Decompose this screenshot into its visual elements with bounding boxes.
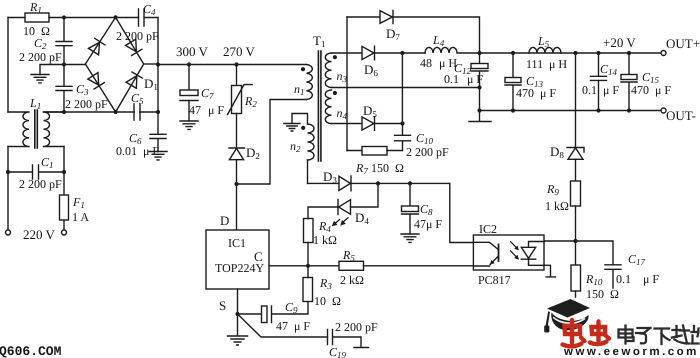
- capacitor C6: [150, 112, 166, 152]
- svg-text:PC817: PC817: [478, 273, 511, 287]
- node: junction top of C2: [62, 15, 66, 19]
- svg-text:n4: n4: [337, 106, 348, 121]
- svg-text:2 200 pF: 2 200 pF: [19, 50, 62, 64]
- svg-text:111: 111: [526, 57, 543, 71]
- svg-text:C7: C7: [201, 86, 214, 101]
- wire: right vertical DC bus x=158: [157, 18, 159, 113]
- svg-text:470 μ F: 470 μ F: [516, 86, 556, 100]
- svg-text:2 200 pF: 2 200 pF: [19, 177, 62, 191]
- inductor L5: [529, 47, 561, 53]
- svg-text:C3: C3: [76, 82, 89, 97]
- svg-text:R5: R5: [342, 248, 355, 263]
- node: OUT- rail at C14: [596, 108, 600, 112]
- capacitor C2: [56, 18, 72, 65]
- transformer winding n1: [307, 65, 313, 100]
- svg-text:S: S: [219, 298, 226, 313]
- bridge rectifier D1: diamond frame: [85, 17, 143, 112]
- capacitor C8 electrolytic: [409, 183, 411, 205]
- svg-text:D3: D3: [323, 169, 337, 185]
- svg-text:1 kΩ: 1 kΩ: [313, 233, 337, 247]
- node: C12 bottom junction: [477, 85, 481, 89]
- svg-text:OUT-: OUT-: [666, 108, 696, 123]
- wire: return vertical to OUT- rail: [479, 88, 481, 111]
- wire: left AC leg down: [7, 147, 9, 231]
- node: bus at C7: [187, 62, 191, 66]
- node: source junction: [235, 312, 239, 316]
- svg-text:C1: C1: [41, 155, 54, 170]
- svg-text:1 kΩ: 1 kΩ: [545, 199, 569, 213]
- node: D5 cathode junction: [400, 121, 404, 125]
- ground below S pin: [228, 314, 248, 345]
- wire: OUT- rail: [480, 110, 662, 112]
- svg-text:C17: C17: [628, 252, 646, 267]
- capacitor C1: [8, 165, 64, 179]
- svg-text:μ H: μ H: [549, 57, 567, 71]
- node: C pin junction R3/R4: [306, 264, 310, 268]
- transformer winding n4: [325, 90, 331, 124]
- svg-text:47: 47: [189, 103, 201, 117]
- arrows near R4: [334, 218, 348, 225]
- transformer winding n3: [325, 53, 331, 87]
- wire: snubber from S node diagonal: [238, 314, 328, 337]
- diode D2: [229, 148, 245, 160]
- svg-text:47μ F: 47μ F: [414, 217, 442, 231]
- svg-text:48: 48: [420, 56, 432, 70]
- svg-text:www.eeworm.com: www.eeworm.com: [563, 346, 699, 358]
- svg-text:2 200 pF: 2 200 pF: [65, 97, 108, 111]
- svg-text:IC2: IC2: [479, 222, 497, 236]
- svg-text:OUT+: OUT+: [666, 36, 700, 51]
- svg-text:0.1 μ F: 0.1 μ F: [616, 272, 659, 286]
- wire: n2 bottom to D3: [307, 160, 309, 183]
- diode D6: [332, 46, 375, 60]
- terminal OUT-: [661, 108, 666, 113]
- svg-text:L4: L4: [432, 33, 445, 48]
- transformer T1 core: [318, 51, 321, 161]
- svg-text:C8: C8: [420, 202, 433, 217]
- svg-text:D5: D5: [363, 103, 377, 119]
- node: n3 phase dot: [333, 55, 337, 59]
- capacitor C19: [328, 330, 369, 348]
- wire: feedback branch from +20V rail: [575, 53, 577, 147]
- svg-text:D1: D1: [144, 76, 158, 92]
- svg-text:C2: C2: [34, 36, 47, 51]
- wire: bottom AC line: [44, 111, 159, 113]
- watermark: chinese site name: [619, 326, 699, 345]
- resistor R10: [575, 241, 577, 265]
- ground below C6: [149, 152, 167, 160]
- svg-text:μ F: μ F: [208, 103, 224, 117]
- svg-text:R9: R9: [546, 182, 559, 197]
- capacitor C7 electrolytic: [188, 65, 190, 90]
- svg-text:47 μ F: 47 μ F: [276, 319, 310, 333]
- svg-text:220 V: 220 V: [23, 227, 56, 242]
- diode: PC817 LED: [521, 242, 544, 266]
- inductor L1: core bars: [35, 110, 38, 148]
- node: bus at bottom AC wire: [156, 110, 160, 114]
- node: C1 left junction: [6, 170, 10, 174]
- svg-text:300 V: 300 V: [176, 44, 209, 59]
- node: bridge top corner junction: [114, 15, 118, 19]
- capacitor C12: [479, 53, 481, 63]
- svg-text:+20 V: +20 V: [603, 35, 636, 50]
- svg-text:2 200 pF: 2 200 pF: [116, 29, 159, 43]
- node: OUT- rail at C13: [511, 108, 515, 112]
- resistor R7: [347, 150, 362, 152]
- node: rectified output junction: [477, 51, 481, 55]
- node: D3 cathode junction: [376, 181, 380, 185]
- wire: top AC line to bridge: [49, 17, 139, 19]
- svg-text:D: D: [220, 213, 229, 228]
- wire: junction to bridge left corner: [64, 64, 85, 66]
- wire: right AC leg down: [63, 147, 65, 196]
- wire: junction to C17: [576, 241, 614, 265]
- node: D6 cathode junction: [400, 51, 404, 55]
- capacitor C10: [395, 124, 411, 151]
- svg-text:150 Ω: 150 Ω: [371, 161, 404, 175]
- capacitor C5: [135, 105, 139, 119]
- svg-text:D6: D6: [364, 62, 378, 78]
- ground at C2/C3 junction: [31, 65, 64, 83]
- node: drain junction: [234, 182, 238, 186]
- node: bridge bottom corner junction: [114, 110, 118, 114]
- svg-text:n2: n2: [290, 139, 301, 154]
- node: bus at R2: [234, 62, 238, 66]
- ground below C8: [401, 234, 419, 242]
- svg-text:n3: n3: [337, 69, 348, 84]
- svg-text:μ F: μ F: [467, 72, 483, 86]
- svg-text:C14: C14: [600, 62, 618, 77]
- inductor L1 common-mode choke: left winding: [8, 112, 29, 147]
- terminal: AC input right: [62, 230, 67, 235]
- wire: left vertical line: [7, 18, 9, 113]
- node: n4 phase dot: [333, 91, 337, 95]
- wire: LED cathode to chassis bar: [545, 265, 556, 277]
- transformer winding n2: [308, 124, 315, 160]
- wire: center tap line: [332, 87, 480, 89]
- svg-text:2 kΩ: 2 kΩ: [340, 273, 364, 287]
- svg-text:270 V: 270 V: [223, 44, 256, 59]
- node: OUT- rail at C15: [627, 108, 631, 112]
- wire: bridge right corner to bus: [144, 63, 158, 65]
- svg-text:n1: n1: [294, 82, 305, 97]
- wire: +DC bus to primary: [158, 64, 307, 66]
- svg-text:R7: R7: [355, 161, 368, 176]
- inductor L1: right winding: [44, 112, 65, 147]
- wire: D pin: [236, 184, 238, 230]
- wire: bias net down to optocoupler: [450, 183, 474, 242]
- svg-text:R1: R1: [29, 0, 42, 15]
- wire: C pin: [269, 265, 308, 267]
- node: junction bottom of C3: [62, 110, 66, 114]
- chassis bar below return junction: [469, 111, 491, 122]
- capacitor C3: [56, 65, 72, 113]
- node: C8 junction: [408, 181, 412, 185]
- bridge diode bottom-right: [126, 72, 142, 88]
- capacitor C9 electrolytic: [238, 313, 262, 315]
- svg-text:μ F: μ F: [603, 83, 619, 97]
- svg-text:470 μ F: 470 μ F: [631, 83, 671, 97]
- terminal: AC input left: [6, 230, 11, 235]
- svg-text:C: C: [254, 249, 263, 264]
- wire: top AC line left segment: [8, 17, 25, 19]
- inductor L4: [425, 47, 480, 53]
- node: C2/C3/ground junction: [62, 62, 66, 66]
- diode D5: [332, 117, 375, 131]
- ground at n2 top: [284, 114, 308, 132]
- node: return rail junction: [477, 108, 481, 112]
- bridge diode top-left: [88, 38, 104, 54]
- svg-text:D2: D2: [246, 145, 260, 161]
- svg-text:10 Ω: 10 Ω: [314, 294, 341, 308]
- wire: junction to optocoupler LED: [545, 240, 576, 242]
- svg-text:D4: D4: [355, 210, 369, 226]
- svg-text:L5: L5: [537, 34, 550, 49]
- svg-text:C5: C5: [131, 91, 144, 106]
- node: rail at C13: [511, 51, 515, 55]
- node: C1 right junction: [62, 170, 66, 174]
- svg-text:C19: C19: [329, 345, 347, 358]
- node: n1 phase dot: [301, 67, 305, 71]
- ground below C7: [180, 121, 198, 129]
- svg-text:R10: R10: [585, 272, 603, 287]
- svg-text:L1: L1: [29, 96, 41, 111]
- node: rail at D8: [573, 51, 577, 55]
- node: bus at y64: [156, 62, 160, 66]
- svg-text:1 A: 1 A: [72, 210, 89, 224]
- diode D4: [338, 200, 351, 215]
- bridge diode bottom-left: [88, 73, 104, 89]
- varistor R2: [236, 65, 238, 86]
- resistor R1: [25, 13, 49, 22]
- wire: rectifier cathode vertical: [401, 53, 403, 124]
- wire: drain to primary bottom: [237, 100, 307, 185]
- svg-text:R4: R4: [318, 219, 331, 234]
- svg-text:R2: R2: [244, 94, 257, 109]
- capacitor C13 electrolytic: [512, 53, 514, 77]
- wire: S pin: [237, 289, 239, 314]
- svg-text:2 200 pF: 2 200 pF: [335, 320, 378, 334]
- wire: +20V rail: [480, 52, 662, 54]
- node: feedback junction: [573, 239, 577, 243]
- resistor R9: [571, 181, 581, 206]
- svg-text:C4: C4: [143, 2, 156, 17]
- op-amp U1 : IC1 TOP224Y block: [206, 230, 269, 289]
- svg-text:C10: C10: [416, 131, 434, 146]
- node: rail at C15: [627, 51, 631, 55]
- arrows: photo coupling: [511, 242, 518, 258]
- svg-text:Q606.COM: Q606.COM: [0, 344, 62, 358]
- optocoupler IC2 PC817 box: [473, 235, 544, 270]
- svg-text:C9: C9: [285, 300, 298, 315]
- capacitor C17: [605, 265, 621, 288]
- svg-text:D8: D8: [550, 144, 564, 160]
- svg-text:0.1: 0.1: [444, 72, 459, 86]
- svg-text:2 200 pF: 2 200 pF: [406, 145, 449, 159]
- watermark: red logo characters: [563, 320, 610, 346]
- svg-text:F1: F1: [72, 195, 85, 210]
- capacitor C15 electrolytic: [628, 53, 630, 74]
- svg-text:IC1: IC1: [228, 236, 246, 250]
- bridge diode top-right: [126, 39, 142, 55]
- svg-text:150 Ω: 150 Ω: [586, 287, 619, 301]
- watermark: graduation cap logo: [544, 299, 590, 333]
- svg-text:D7: D7: [386, 26, 400, 42]
- node: n2 phase dot: [301, 126, 305, 130]
- svg-text:T1: T1: [313, 33, 325, 49]
- capacitor C4: [139, 9, 159, 26]
- wire: snubber vertical x=347: [346, 17, 348, 151]
- zener diode D8: [567, 148, 584, 160]
- resistor R3: [303, 278, 313, 302]
- svg-text:R3: R3: [319, 276, 332, 291]
- diode D3: [308, 176, 352, 191]
- resistor R5: [308, 265, 339, 267]
- node: rail at C14: [596, 51, 600, 55]
- svg-text:0.1: 0.1: [582, 83, 597, 97]
- diode D7: [347, 11, 393, 24]
- transistor Q1 : PC817 phototransistor: [473, 242, 498, 249]
- capacitor C14: [591, 53, 607, 111]
- fuse F1: [60, 195, 69, 220]
- resistor R4: [304, 219, 314, 243]
- terminal OUT+: [661, 51, 666, 56]
